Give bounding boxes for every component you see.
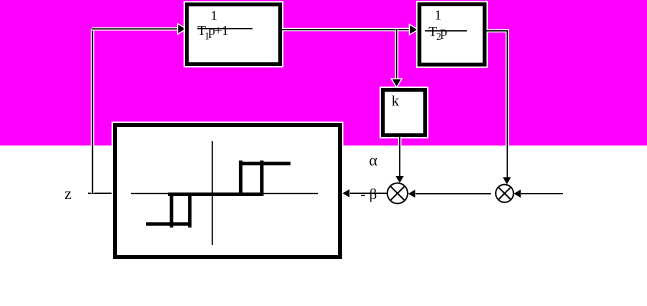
label minus beta [361, 187, 377, 203]
hysteresis right riser 1 [239, 161, 243, 197]
wire multiplier M1 to nonlinearity box [343, 189, 388, 197]
multiplier M2 [496, 185, 514, 203]
hysteresis left riser 2 [188, 194, 192, 228]
svg-text:1: 1 [435, 8, 442, 23]
multiplier M1 [387, 183, 407, 203]
wire branch down to gain k [393, 30, 401, 87]
hysteresis left riser 1 [170, 194, 174, 228]
hysteresis middle level [168, 192, 263, 196]
svg-text:z: z [65, 186, 72, 203]
svg-text:1: 1 [211, 9, 218, 24]
hysteresis lower level [146, 222, 191, 226]
svg-text:p: p [440, 25, 447, 40]
nonlinearity box [115, 125, 340, 257]
wire into block W1 [92, 25, 185, 33]
label z [65, 186, 72, 203]
svg-text:1: 1 [222, 24, 229, 39]
vertical axis [211, 141, 213, 245]
svg-text:α: α [369, 153, 378, 170]
wire z feedback horizontal stub [88, 192, 114, 195]
magenta highlight band [0, 0, 647, 146]
block k [383, 90, 425, 135]
label alpha [369, 153, 378, 170]
wire external input into multiplier M2 [514, 190, 563, 198]
horizontal axis [131, 193, 318, 195]
svg-text:- β: - β [361, 187, 377, 203]
block W2 1/(T2p) [419, 4, 484, 64]
svg-text:k: k [392, 94, 400, 110]
block W1 1/(T1p+1) [187, 4, 280, 64]
wire block W1 to block W2 [282, 26, 417, 34]
hysteresis right riser 2 [260, 161, 264, 197]
wire W2 output feedback down to multiplier M2 [487, 31, 512, 185]
hysteresis upper level [240, 162, 291, 166]
wire k output down to multiplier M1 [396, 137, 404, 183]
wire feedback vertical [91, 29, 94, 193]
wire multiplier M2 to multiplier M1 [408, 190, 491, 198]
